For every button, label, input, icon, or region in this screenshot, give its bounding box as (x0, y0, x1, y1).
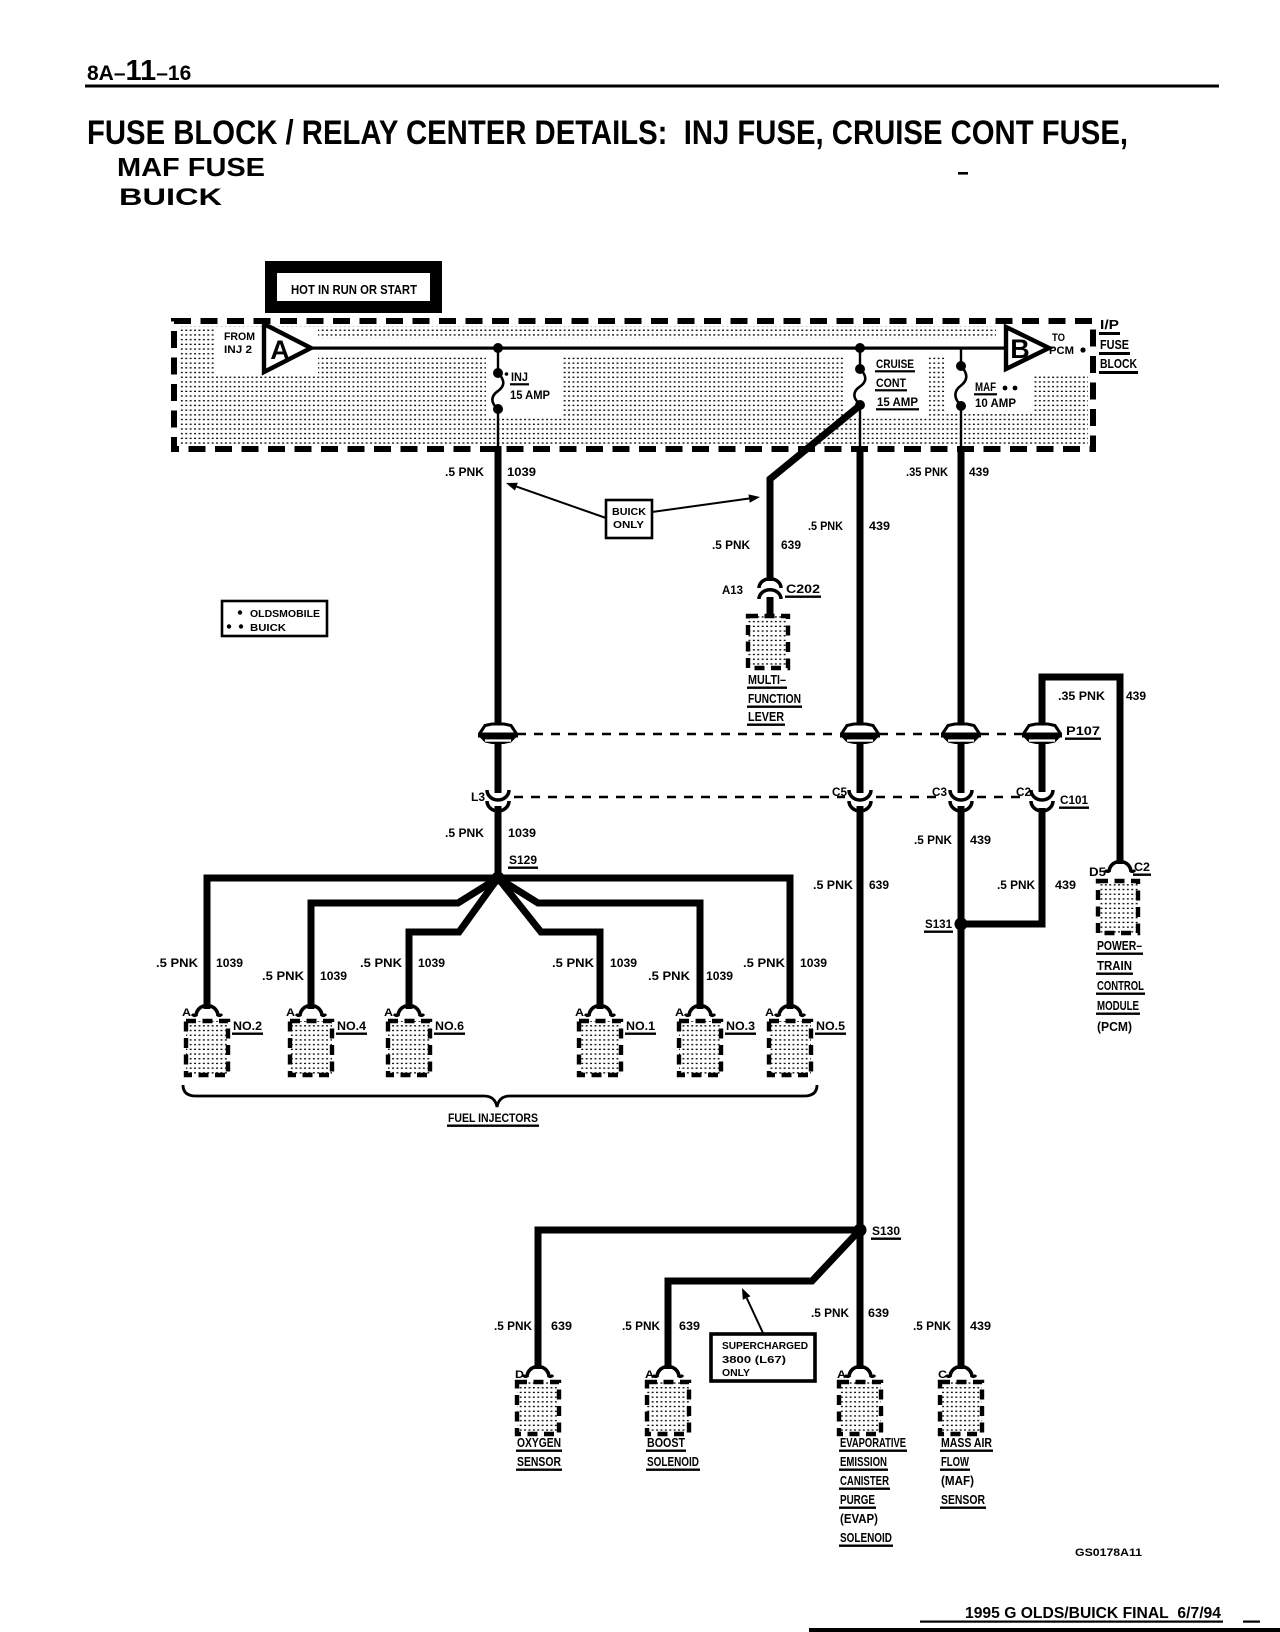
connector C202 pin A13 (722, 579, 821, 599)
label I/P FUSE BLOCK (1099, 317, 1138, 374)
svg-text:SUPERCHARGED: SUPERCHARGED (722, 1340, 808, 1352)
svg-text:HOT IN RUN OR START: HOT IN RUN OR START (291, 283, 417, 297)
svg-text:C202: C202 (786, 582, 820, 596)
label .5 PNK 439 (S131 wire) (997, 878, 1076, 892)
HOT IN RUN OR START box (271, 267, 436, 307)
powertrain control module (PCM) (1096, 881, 1145, 1034)
label .5 PNK 1039 (NO.4) (262, 969, 347, 983)
svg-text:.5 PNK: .5 PNK (445, 465, 484, 479)
connector C5 (832, 785, 871, 811)
svg-text:SOLENOID: SOLENOID (647, 1454, 699, 1469)
svg-text:LEVER: LEVER (748, 709, 785, 724)
svg-text:.5 PNK: .5 PNK (360, 956, 402, 970)
svg-text:EVAPORATIVE: EVAPORATIVE (840, 1435, 906, 1450)
svg-text:NO.1: NO.1 (626, 1019, 655, 1033)
svg-text:S131: S131 (925, 917, 952, 931)
svg-text:CONT: CONT (876, 378, 906, 390)
label .5 PNK 1039 (NO.2) (156, 956, 243, 970)
svg-text:MAF FUSE: MAF FUSE (117, 152, 265, 182)
svg-text:A: A (675, 1007, 684, 1019)
grommet P107 (PCM wire) (1022, 724, 1101, 744)
svg-text:B: B (1010, 334, 1030, 364)
svg-text:A: A (837, 1369, 846, 1381)
label .35 PNK 439 (top) (906, 465, 989, 479)
footer 1995 G OLDS/BUICK FINAL 6/7/94 (809, 1605, 1280, 1632)
svg-text:FUSE: FUSE (1100, 337, 1129, 352)
wire 1039 INJ vertical (495, 446, 502, 876)
svg-text:A: A (182, 1007, 191, 1019)
label .5 PNK 639 (oxygen) (494, 1319, 572, 1333)
svg-text:A13: A13 (722, 583, 743, 597)
label .5 PNK 439 (below C3) (914, 833, 991, 847)
svg-text:639: 639 (868, 1306, 889, 1320)
svg-text:1039: 1039 (320, 969, 347, 983)
label .5 PNK 439 (MAF) (913, 1319, 991, 1333)
label .5 PNK 639 (boost) (622, 1319, 700, 1333)
svg-text:C3: C3 (932, 785, 947, 799)
fuse CRUISE CONT 15 AMP (854, 343, 919, 449)
svg-text:C5: C5 (832, 785, 847, 799)
svg-text:C2: C2 (1134, 860, 1150, 874)
grommet (INJ wire) (478, 724, 518, 744)
svg-text:639: 639 (551, 1319, 572, 1333)
svg-text:FROM: FROM (224, 331, 255, 343)
svg-text:.5 PNK: .5 PNK (156, 956, 198, 970)
fuel injector NO.5 (pin A) (765, 1006, 846, 1075)
EVAP solenoid (pin A) (837, 1367, 907, 1547)
label .5 PNK 1039 (mid) (445, 826, 536, 840)
wire 1039 to injector NO.2 (207, 878, 498, 1009)
svg-text:1039: 1039 (706, 969, 733, 983)
svg-text:MULTI–: MULTI– (748, 672, 786, 687)
svg-text:FUSE BLOCK / RELAY CENTER DETA: FUSE BLOCK / RELAY CENTER DETAILS: INJ F… (87, 114, 1128, 152)
grommet (MAF wire) (941, 724, 981, 744)
svg-text:FUNCTION: FUNCTION (748, 691, 801, 706)
svg-text:A: A (575, 1007, 584, 1019)
label .5 PNK 1039 (NO.6) (360, 956, 445, 970)
grommet (CRUISE wire) (840, 724, 880, 744)
wire 639 BUICK diagonal (770, 407, 858, 581)
SUPERCHARGED 3800 (L67) ONLY callout (711, 1288, 815, 1381)
svg-text:15 AMP: 15 AMP (510, 390, 550, 402)
fuel injector NO.6 (pin A) (384, 1006, 465, 1075)
svg-text:OXYGEN: OXYGEN (517, 1435, 561, 1450)
label .5 PNK 439 (cruise wire) (808, 519, 890, 533)
svg-text:FUEL INJECTORS: FUEL INJECTORS (448, 1111, 538, 1125)
svg-text:1039: 1039 (216, 956, 243, 970)
connector B (TO PCM) (1006, 327, 1086, 369)
fuel injector NO.3 (pin A) (675, 1006, 756, 1075)
BUICK ONLY callout box (506, 483, 760, 538)
fuel injector NO.4 (pin A) (286, 1006, 367, 1075)
svg-text:.5 PNK: .5 PNK (552, 956, 594, 970)
svg-text:S129: S129 (509, 853, 537, 867)
svg-text:POWER–: POWER– (1097, 938, 1142, 953)
svg-text:C2: C2 (1016, 785, 1031, 799)
svg-text:439: 439 (1055, 878, 1076, 892)
mass air flow (MAF) sensor (pin C) (938, 1367, 993, 1509)
svg-text:639: 639 (679, 1319, 700, 1333)
fuel injector NO.2 (pin A) (182, 1006, 263, 1075)
svg-text:(MAF): (MAF) (941, 1473, 974, 1488)
title (87, 114, 1128, 211)
svg-text:L3: L3 (471, 790, 485, 804)
svg-text:1039: 1039 (610, 956, 637, 970)
wire 1039 to injector NO.6 (409, 878, 498, 1009)
svg-text:439: 439 (869, 519, 890, 533)
svg-text:OLDSMOBILE: OLDSMOBILE (250, 608, 320, 620)
wire 439 S131 to PCM (961, 677, 1120, 924)
svg-text:MAF: MAF (975, 382, 996, 394)
svg-text:BUICK: BUICK (250, 622, 286, 634)
label .5 PNK 1039 (NO.1) (552, 956, 637, 970)
svg-text:PURGE: PURGE (840, 1492, 875, 1507)
svg-text:.35 PNK: .35 PNK (906, 465, 948, 479)
svg-text:1039: 1039 (507, 465, 536, 479)
svg-text:SENSOR: SENSOR (517, 1454, 561, 1469)
halos (216, 326, 1088, 418)
connector L3 (471, 790, 509, 811)
wire 639 to boost solenoid (668, 1233, 857, 1369)
svg-text:CANISTER: CANISTER (840, 1473, 889, 1488)
dashed line C101 row (514, 796, 1022, 799)
svg-text:.5 PNK: .5 PNK (445, 826, 484, 840)
label .5 PNK 1039 (NO.5) (743, 956, 827, 970)
svg-text:.5 PNK: .5 PNK (494, 1319, 532, 1333)
dashed line grommet row (517, 733, 1023, 736)
svg-text:SENSOR: SENSOR (941, 1492, 985, 1507)
svg-text:TRAIN: TRAIN (1097, 958, 1132, 973)
svg-text:439: 439 (970, 1319, 991, 1333)
svg-text:MASS AIR: MASS AIR (941, 1435, 992, 1450)
svg-text:639: 639 (869, 878, 889, 892)
svg-text:C101: C101 (1060, 793, 1088, 807)
svg-text:CONTROL: CONTROL (1097, 978, 1144, 993)
svg-text:(PCM): (PCM) (1097, 1019, 1132, 1034)
svg-text:NO.3: NO.3 (726, 1019, 755, 1033)
svg-text:1995 G OLDS/BUICK FINAL 6/7/9: 1995 G OLDS/BUICK FINAL 6/7/94 (965, 1605, 1221, 1622)
svg-text:A: A (765, 1007, 774, 1019)
svg-text:A: A (286, 1007, 295, 1019)
svg-text:.5 PNK: .5 PNK (813, 878, 853, 892)
svg-text:A: A (645, 1369, 654, 1381)
svg-text:.5 PNK: .5 PNK (262, 969, 304, 983)
wire into multi-function lever (767, 597, 774, 618)
svg-text:C: C (938, 1369, 947, 1381)
svg-text:ONLY: ONLY (722, 1367, 750, 1379)
connector C2 / C101 (1016, 785, 1089, 811)
label .35 PNK 439 (PCM wire) (1058, 689, 1146, 703)
svg-text:BOOST: BOOST (647, 1435, 685, 1450)
svg-text:CRUISE: CRUISE (876, 359, 914, 371)
drawing number GS0178A11 (1075, 1547, 1142, 1559)
PCM pin D5 connector C2 (1089, 860, 1151, 879)
svg-text:.35 PNK: .35 PNK (1058, 689, 1105, 703)
svg-text:1039: 1039 (800, 956, 827, 970)
svg-text:.5 PNK: .5 PNK (743, 956, 785, 970)
wire 639 to oxygen sensor (538, 1230, 860, 1369)
svg-text:BUICK: BUICK (612, 506, 646, 518)
splice S129 (492, 853, 539, 885)
svg-text:NO.2: NO.2 (233, 1019, 262, 1033)
I/P fuse block (dashed box, stippled) (174, 321, 1093, 449)
svg-text:NO.4: NO.4 (337, 1019, 366, 1033)
svg-text:BLOCK: BLOCK (1100, 356, 1137, 371)
label .5 PNK 1039 (top) (445, 465, 536, 479)
splice S131 (924, 917, 968, 933)
svg-text:MODULE: MODULE (1097, 998, 1139, 1013)
wire 1039 to injector NO.4 (311, 878, 498, 1009)
wire 439 CRUISE vertical (857, 446, 864, 1230)
svg-text:TO: TO (1052, 332, 1065, 344)
label .5 PNK 639 (EVAP) (811, 1306, 889, 1320)
svg-text:A: A (384, 1007, 393, 1019)
svg-text:.5 PNK: .5 PNK (997, 878, 1035, 892)
label .5 PNK 1039 (NO.3) (648, 969, 733, 983)
svg-text:10 AMP: 10 AMP (975, 398, 1016, 410)
wire 1039 to injector NO.5 (498, 878, 790, 1009)
svg-text:S130: S130 (872, 1224, 900, 1238)
svg-text:1039: 1039 (508, 826, 536, 840)
svg-text:439: 439 (969, 465, 989, 479)
svg-text:3800 (L67): 3800 (L67) (722, 1354, 786, 1366)
svg-text:BUICK: BUICK (119, 184, 223, 211)
svg-text:I/P: I/P (1100, 317, 1119, 332)
fuse MAF 10 AMP (955, 348, 1017, 449)
svg-text:439: 439 (970, 833, 991, 847)
svg-text:A: A (270, 335, 290, 365)
legend OLDSMOBILE / BUICK (222, 601, 327, 636)
svg-text:INJ 2: INJ 2 (224, 344, 252, 356)
svg-text:INJ: INJ (511, 372, 528, 384)
wire 639 to EVAP solenoid (857, 1230, 864, 1369)
svg-text:.5 PNK: .5 PNK (914, 833, 952, 847)
connector A (FROM INJ 2) (224, 324, 311, 372)
fuse INJ 15 AMP (492, 343, 550, 449)
svg-text:NO.6: NO.6 (435, 1019, 464, 1033)
svg-text:.5 PNK: .5 PNK (913, 1319, 951, 1333)
header rule (85, 85, 1219, 88)
svg-text:.5 PNK: .5 PNK (808, 519, 843, 533)
wire: fuse block bus (306, 347, 1010, 350)
brace fuel injectors (183, 1085, 817, 1127)
oxygen sensor (pin D) (515, 1367, 562, 1471)
svg-text:EMISSION: EMISSION (840, 1454, 887, 1469)
wire 439 MAF vertical (958, 446, 965, 1369)
label .5 PNK 639 (below C5) (813, 878, 889, 892)
svg-text:1039: 1039 (418, 956, 445, 970)
svg-text:.5 PNK: .5 PNK (622, 1319, 660, 1333)
boost solenoid (pin A) (645, 1367, 700, 1471)
page number 8A-11-16 (87, 55, 191, 87)
connector C3 (932, 785, 972, 811)
splice S130 (854, 1224, 902, 1240)
wire 1039 to injector NO.3 (498, 878, 700, 1009)
fuel injector NO.1 (pin A) (575, 1006, 656, 1075)
label .5 PNK 639 (buick wire) (712, 538, 801, 552)
svg-text:.5 PNK: .5 PNK (811, 1306, 849, 1320)
svg-text:D5: D5 (1089, 865, 1106, 879)
svg-text:P107: P107 (1066, 724, 1100, 738)
svg-text:439: 439 (1126, 689, 1146, 703)
wire 1039 to injector NO.1 (498, 878, 600, 1009)
svg-text:PCM: PCM (1049, 345, 1074, 357)
svg-text:.5 PNK: .5 PNK (712, 538, 750, 552)
svg-text:.5 PNK: .5 PNK (648, 969, 690, 983)
multi-function lever (747, 616, 802, 726)
svg-text:(EVAP): (EVAP) (840, 1511, 878, 1526)
svg-text:FLOW: FLOW (941, 1454, 970, 1469)
svg-text:SOLENOID: SOLENOID (840, 1530, 892, 1545)
svg-text:15 AMP: 15 AMP (877, 397, 918, 409)
svg-text:GS0178A11: GS0178A11 (1075, 1547, 1142, 1559)
svg-text:D: D (515, 1369, 524, 1381)
svg-text:639: 639 (781, 538, 801, 552)
svg-text:NO.5: NO.5 (816, 1019, 845, 1033)
svg-text:ONLY: ONLY (613, 519, 644, 531)
